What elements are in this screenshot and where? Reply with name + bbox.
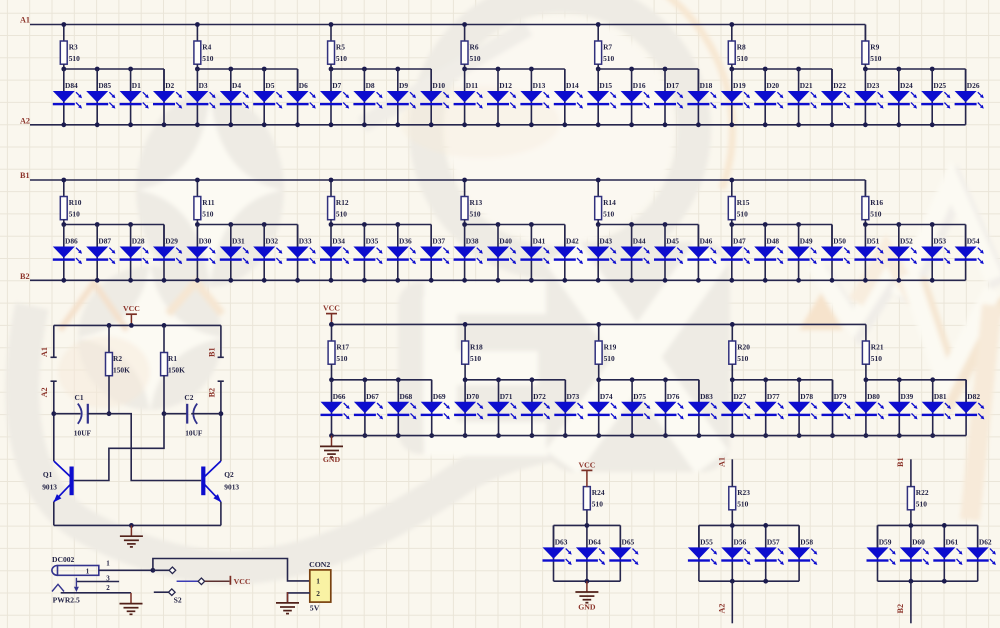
svg-text:D31: D31 [232, 237, 245, 246]
svg-text:D61: D61 [946, 538, 959, 547]
svg-text:1: 1 [316, 576, 320, 585]
svg-text:510: 510 [202, 54, 213, 63]
svg-text:R14: R14 [603, 198, 616, 207]
svg-text:D30: D30 [199, 237, 212, 246]
svg-text:B1: B1 [896, 457, 905, 467]
svg-text:A2: A2 [718, 603, 727, 613]
svg-text:3: 3 [106, 575, 110, 583]
svg-text:R24: R24 [592, 488, 605, 497]
svg-text:D1: D1 [132, 81, 141, 90]
svg-text:510: 510 [470, 209, 481, 218]
svg-text:R9: R9 [870, 42, 879, 51]
svg-text:R17: R17 [336, 342, 349, 351]
svg-text:D11: D11 [466, 81, 479, 90]
svg-text:D35: D35 [366, 237, 379, 246]
svg-text:1: 1 [106, 559, 110, 567]
svg-text:B1: B1 [207, 347, 216, 357]
svg-text:GND: GND [323, 455, 341, 464]
svg-text:D86: D86 [65, 237, 78, 246]
svg-text:2: 2 [316, 589, 320, 598]
svg-text:D67: D67 [366, 392, 379, 401]
svg-text:D51: D51 [867, 237, 880, 246]
svg-text:B2: B2 [207, 388, 216, 398]
svg-text:VCC: VCC [234, 577, 251, 586]
svg-text:C1: C1 [75, 393, 84, 402]
svg-text:C2: C2 [184, 393, 193, 402]
svg-text:S2: S2 [174, 596, 182, 605]
svg-text:1: 1 [86, 567, 90, 575]
svg-text:150K: 150K [168, 365, 185, 374]
svg-text:D66: D66 [333, 392, 346, 401]
svg-text:D82: D82 [967, 392, 980, 401]
svg-text:510: 510 [336, 354, 347, 363]
svg-text:A2: A2 [40, 387, 49, 397]
svg-text:D81: D81 [934, 392, 947, 401]
svg-text:D17: D17 [666, 81, 679, 90]
svg-text:D39: D39 [901, 392, 914, 401]
svg-text:D64: D64 [588, 538, 601, 547]
svg-text:510: 510 [603, 209, 614, 218]
svg-text:D24: D24 [900, 81, 913, 90]
svg-text:R20: R20 [737, 342, 750, 351]
svg-text:D8: D8 [366, 81, 375, 90]
svg-text:510: 510 [737, 54, 748, 63]
svg-text:D74: D74 [600, 392, 613, 401]
svg-text:D84: D84 [65, 81, 78, 90]
svg-text:R18: R18 [470, 342, 483, 351]
svg-text:D38: D38 [466, 237, 479, 246]
svg-text:D12: D12 [499, 81, 512, 90]
svg-text:VCC: VCC [323, 304, 340, 313]
svg-text:510: 510 [871, 354, 882, 363]
svg-text:D42: D42 [566, 237, 579, 246]
svg-text:D60: D60 [912, 538, 925, 547]
svg-text:D77: D77 [767, 392, 780, 401]
svg-text:D73: D73 [567, 392, 580, 401]
svg-text:R15: R15 [737, 198, 750, 207]
svg-text:D79: D79 [834, 392, 847, 401]
svg-text:Q2: Q2 [224, 470, 234, 479]
svg-text:D87: D87 [98, 237, 111, 246]
svg-text:D70: D70 [466, 392, 479, 401]
svg-text:150K: 150K [113, 365, 130, 374]
svg-text:D52: D52 [900, 237, 913, 246]
svg-text:510: 510 [737, 354, 748, 363]
svg-text:R16: R16 [870, 198, 883, 207]
svg-text:D25: D25 [933, 81, 946, 90]
svg-text:A1: A1 [718, 457, 727, 467]
svg-text:R4: R4 [202, 42, 211, 51]
svg-text:D27: D27 [734, 392, 747, 401]
svg-text:D26: D26 [967, 81, 980, 90]
svg-text:5V: 5V [310, 603, 320, 612]
svg-text:R11: R11 [202, 198, 215, 207]
svg-text:DC002: DC002 [52, 555, 75, 564]
svg-text:D68: D68 [400, 392, 413, 401]
svg-text:D33: D33 [299, 237, 312, 246]
svg-text:D4: D4 [232, 81, 241, 90]
svg-text:D56: D56 [734, 538, 747, 547]
svg-text:D55: D55 [700, 538, 713, 547]
svg-text:510: 510 [592, 500, 603, 509]
svg-text:510: 510 [69, 209, 80, 218]
svg-text:D65: D65 [622, 538, 635, 547]
svg-text:D40: D40 [499, 237, 512, 246]
svg-text:510: 510 [737, 209, 748, 218]
svg-text:R13: R13 [470, 198, 483, 207]
svg-text:R6: R6 [470, 42, 479, 51]
svg-text:D29: D29 [165, 237, 178, 246]
svg-text:R5: R5 [336, 42, 345, 51]
svg-text:R8: R8 [737, 42, 746, 51]
svg-text:510: 510 [470, 354, 481, 363]
svg-text:R1: R1 [168, 354, 177, 363]
svg-text:D72: D72 [533, 392, 546, 401]
svg-text:510: 510 [603, 54, 614, 63]
svg-text:510: 510 [336, 54, 347, 63]
svg-text:D83: D83 [700, 392, 713, 401]
svg-text:D32: D32 [265, 237, 278, 246]
svg-text:D14: D14 [566, 81, 579, 90]
svg-text:D13: D13 [533, 81, 546, 90]
svg-text:510: 510 [870, 209, 881, 218]
svg-text:510: 510 [916, 500, 927, 509]
svg-text:D2: D2 [165, 81, 174, 90]
svg-text:A2: A2 [20, 116, 30, 125]
svg-text:D63: D63 [555, 538, 568, 547]
svg-text:D44: D44 [633, 237, 646, 246]
svg-text:D45: D45 [666, 237, 679, 246]
svg-text:D71: D71 [500, 392, 513, 401]
svg-text:D58: D58 [800, 538, 813, 547]
svg-text:R10: R10 [69, 198, 82, 207]
svg-text:D48: D48 [766, 237, 779, 246]
svg-text:510: 510 [470, 54, 481, 63]
svg-text:D47: D47 [733, 237, 746, 246]
svg-text:CON2: CON2 [309, 560, 330, 569]
svg-text:D41: D41 [533, 237, 546, 246]
svg-text:10UF: 10UF [74, 429, 92, 438]
svg-text:D3: D3 [199, 81, 208, 90]
svg-text:D23: D23 [867, 81, 880, 90]
svg-text:PWR2.5: PWR2.5 [53, 595, 80, 604]
svg-text:D57: D57 [767, 538, 780, 547]
svg-text:D10: D10 [432, 81, 445, 90]
svg-text:D85: D85 [98, 81, 111, 90]
svg-text:510: 510 [870, 54, 881, 63]
svg-text:D54: D54 [967, 237, 980, 246]
svg-text:D15: D15 [599, 81, 612, 90]
svg-text:10UF: 10UF [185, 429, 203, 438]
svg-text:A1: A1 [20, 15, 30, 24]
svg-text:R2: R2 [113, 354, 122, 363]
svg-text:D20: D20 [766, 81, 779, 90]
svg-text:D36: D36 [399, 237, 412, 246]
svg-text:D34: D34 [332, 237, 345, 246]
svg-text:D50: D50 [833, 237, 846, 246]
svg-text:R3: R3 [69, 42, 78, 51]
svg-text:D62: D62 [979, 538, 992, 547]
svg-text:D46: D46 [700, 237, 713, 246]
svg-text:D18: D18 [700, 81, 713, 90]
svg-text:D37: D37 [432, 237, 445, 246]
svg-text:9013: 9013 [224, 482, 239, 491]
svg-text:510: 510 [202, 209, 213, 218]
svg-text:A1: A1 [40, 347, 49, 357]
svg-text:D19: D19 [733, 81, 746, 90]
svg-text:D76: D76 [667, 392, 680, 401]
svg-text:GND: GND [578, 603, 596, 612]
svg-text:510: 510 [604, 354, 615, 363]
svg-text:D53: D53 [933, 237, 946, 246]
svg-text:510: 510 [69, 54, 80, 63]
svg-text:510: 510 [336, 209, 347, 218]
svg-text:B2: B2 [20, 272, 30, 281]
svg-text:D16: D16 [633, 81, 646, 90]
svg-text:B2: B2 [896, 604, 905, 614]
svg-text:D69: D69 [433, 392, 446, 401]
svg-text:510: 510 [737, 500, 748, 509]
svg-text:B1: B1 [20, 171, 30, 180]
svg-text:D5: D5 [265, 81, 274, 90]
svg-text:R22: R22 [916, 488, 929, 497]
svg-text:VCC: VCC [578, 460, 595, 469]
svg-text:9013: 9013 [42, 482, 57, 491]
svg-text:R23: R23 [737, 488, 750, 497]
svg-text:R19: R19 [604, 342, 617, 351]
svg-text:R21: R21 [871, 342, 884, 351]
svg-text:D59: D59 [879, 538, 892, 547]
svg-text:D28: D28 [132, 237, 145, 246]
svg-text:VCC: VCC [123, 304, 140, 313]
svg-text:D43: D43 [599, 237, 612, 246]
svg-text:2: 2 [106, 584, 110, 592]
svg-text:D78: D78 [800, 392, 813, 401]
svg-text:D80: D80 [867, 392, 880, 401]
svg-text:R7: R7 [603, 42, 612, 51]
svg-text:D22: D22 [833, 81, 846, 90]
svg-text:D49: D49 [800, 237, 813, 246]
svg-text:D9: D9 [399, 81, 408, 90]
svg-text:R12: R12 [336, 198, 349, 207]
svg-text:D75: D75 [633, 392, 646, 401]
svg-text:Q1: Q1 [43, 470, 53, 479]
svg-text:D21: D21 [800, 81, 813, 90]
svg-text:D7: D7 [332, 81, 341, 90]
svg-text:D6: D6 [299, 81, 308, 90]
